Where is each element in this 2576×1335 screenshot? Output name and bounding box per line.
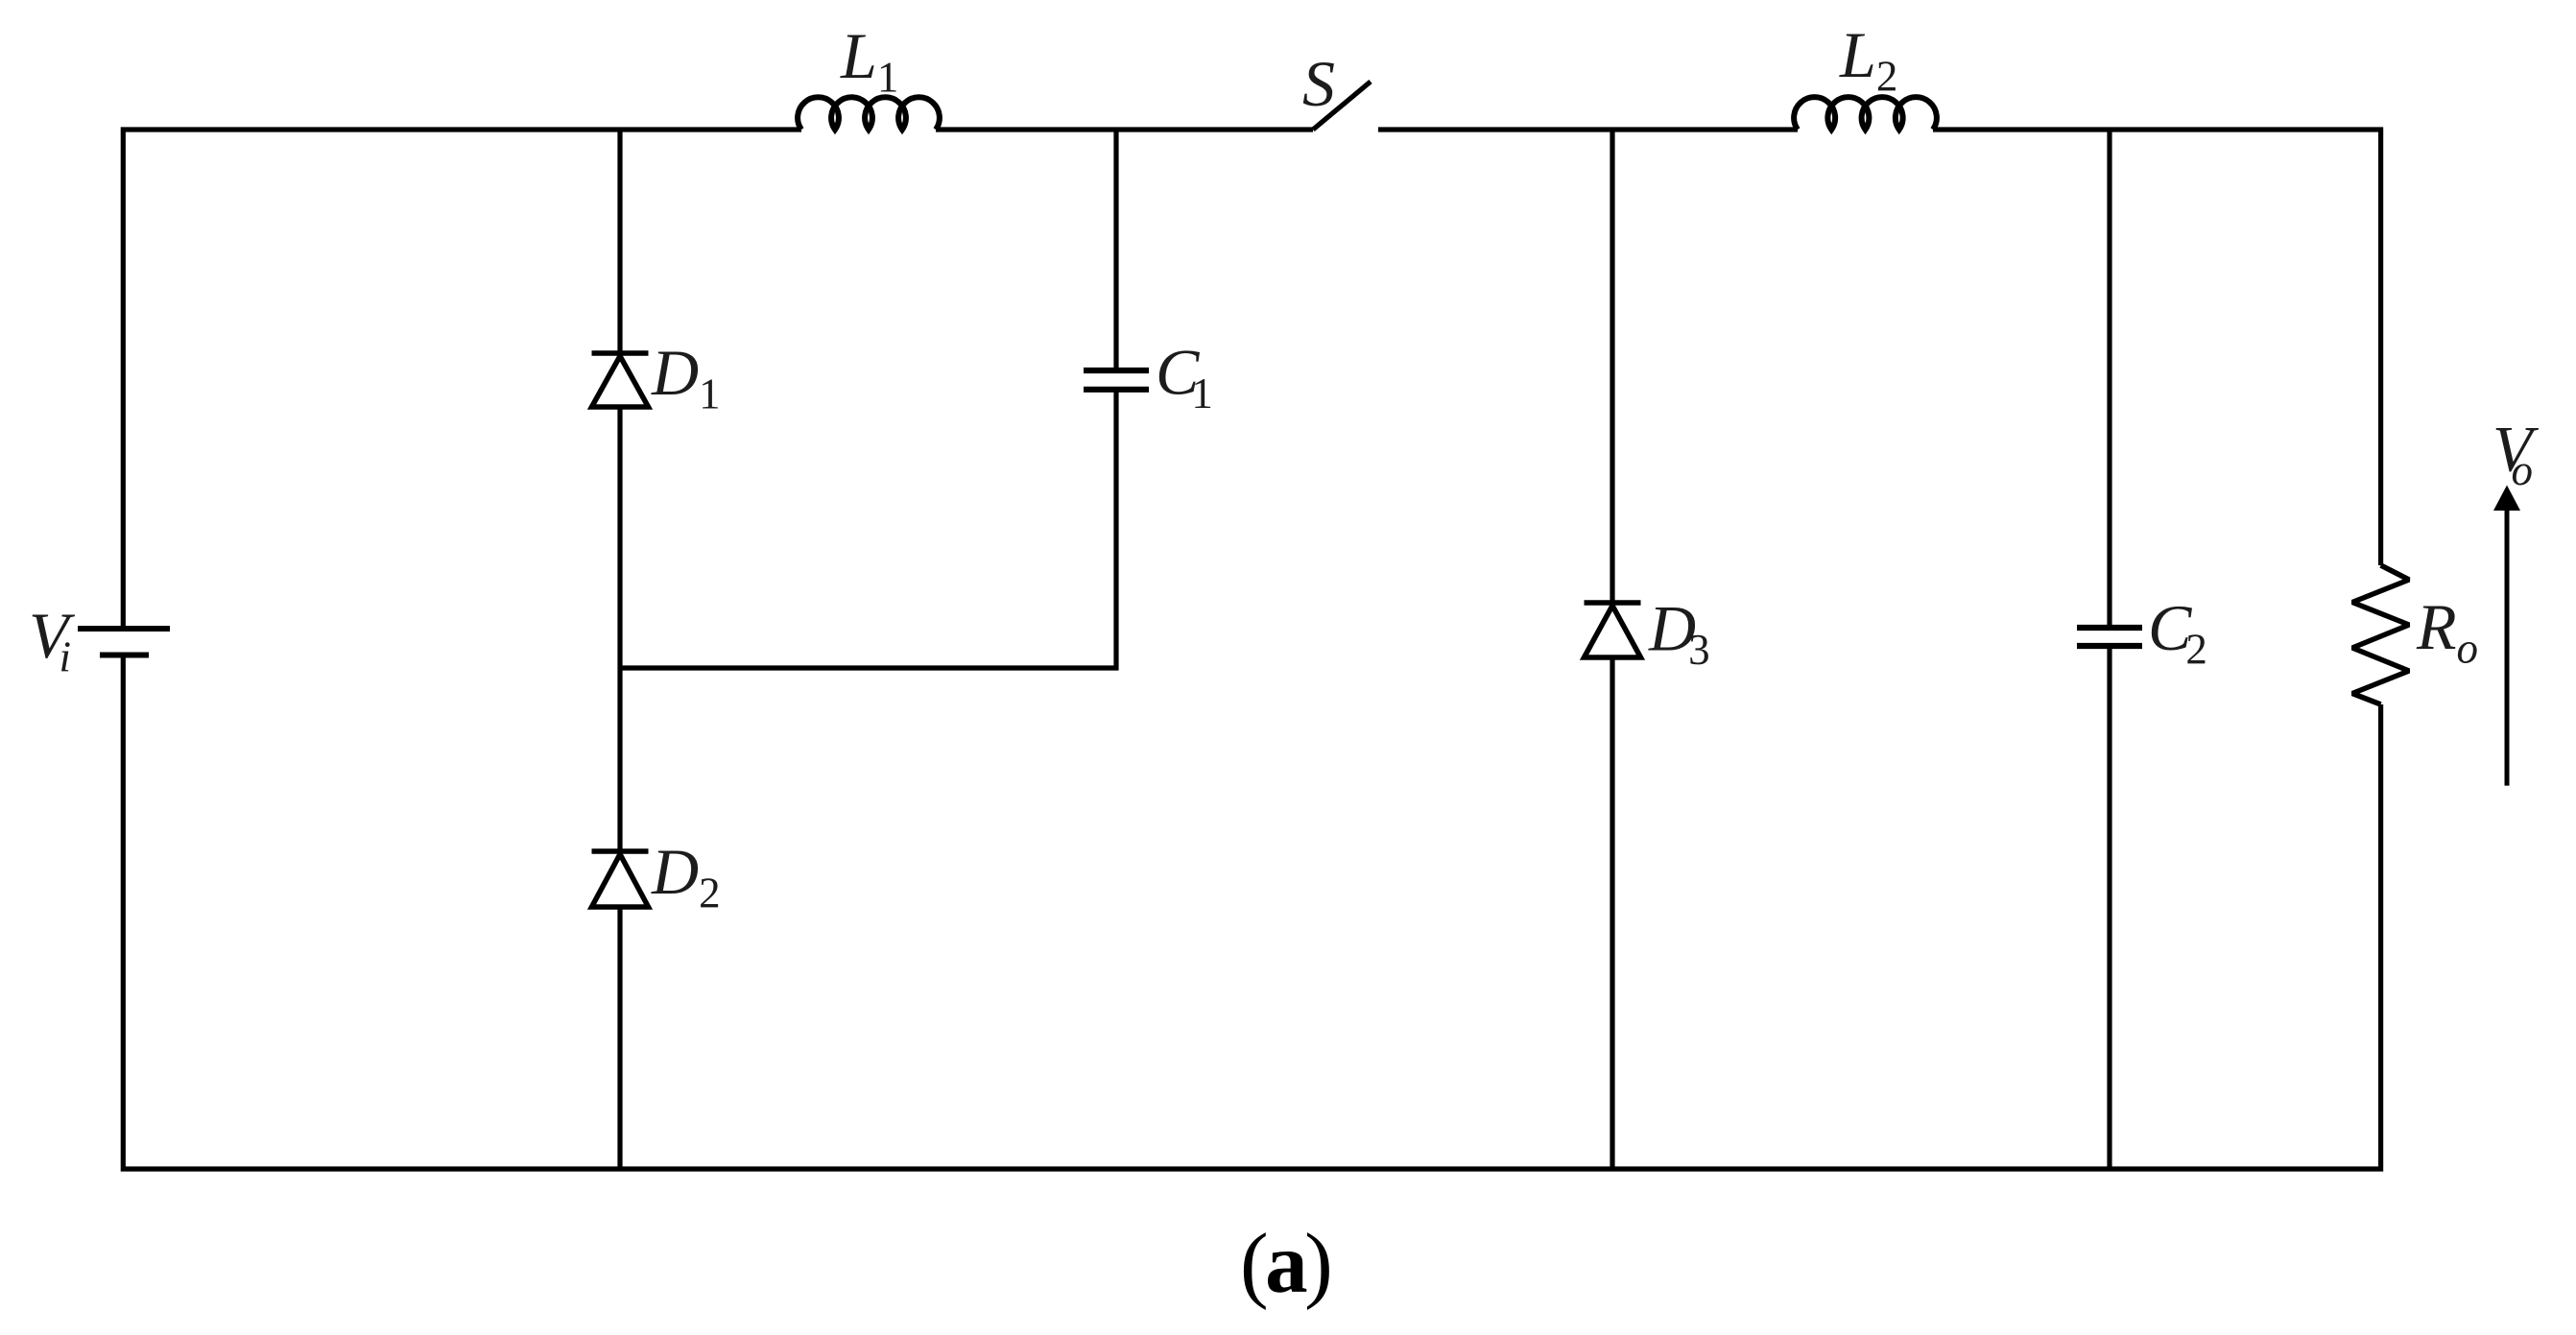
svg-text:(a): (a): [1240, 1217, 1329, 1311]
svg-text:S: S: [1302, 47, 1335, 120]
